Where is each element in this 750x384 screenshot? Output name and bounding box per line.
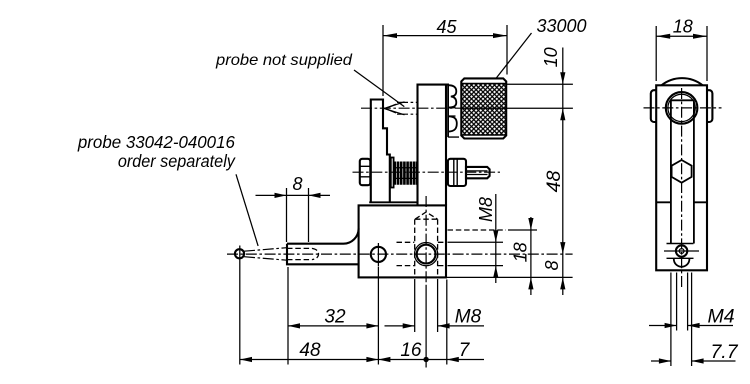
spring washer: [391, 158, 394, 188]
svg-text:order separately: order separately: [118, 151, 236, 171]
clamp circles: [666, 92, 698, 124]
label 33000: [497, 33, 532, 78]
tube: [671, 100, 694, 243]
center line main axis: [227, 253, 573, 255]
M4 hole: [676, 245, 687, 256]
dim M8 top: [495, 194, 497, 283]
probe ball: [235, 249, 244, 258]
probe tip phantom: [385, 104, 396, 113]
clamp piece bumps: [448, 85, 457, 131]
hidden probe shank hole in arm: [287, 248, 319, 259]
probe stem phantom: [397, 102, 418, 114]
hole 2 thread outer: [415, 243, 438, 266]
hex nut left: [360, 159, 371, 185]
hexagon: [672, 160, 692, 183]
svg-text:18: 18: [673, 17, 693, 37]
svg-text:8: 8: [542, 260, 562, 270]
svg-text:32: 32: [324, 307, 346, 328]
hole 1 (pivot hole): [371, 247, 386, 262]
extension lines bottom: [240, 262, 447, 365]
shoulder line under plates: [369, 201, 418, 203]
ball center cross: [239, 246, 241, 263]
hex nut right on stud: [448, 159, 466, 186]
dim 32 row: [288, 325, 378, 327]
center line probe top axis: [361, 107, 462, 109]
dim 18 side: [656, 35, 707, 37]
hidden drill cone: [415, 212, 438, 219]
dim 7.7: [651, 360, 736, 362]
leader probe 33042: [236, 174, 258, 246]
main column: [418, 85, 449, 206]
svg-text:8: 8: [292, 174, 302, 194]
column: [656, 85, 707, 270]
svg-text:probe 33042-040016: probe 33042-040016: [77, 132, 235, 152]
dim 45: [383, 35, 507, 37]
dim 48 / 16 / 7 row: [240, 359, 484, 361]
svg-text:M8: M8: [476, 197, 496, 222]
dim 18 right: [530, 217, 532, 295]
svg-text:probe not supplied: probe not supplied: [215, 52, 353, 69]
dim M4: [649, 325, 733, 327]
hole 1 cross: [377, 243, 379, 266]
hidden line 18 ref: [448, 229, 507, 231]
clamp plate (left stepped plate): [371, 100, 390, 203]
svg-text:7.7: 7.7: [710, 341, 738, 363]
M4 boss lines: [667, 244, 694, 259]
probe phantom cone to ball: [244, 248, 287, 261]
dim 10 / 48 right column: [562, 48, 564, 296]
shoulder: [656, 201, 707, 203]
top arc: [662, 78, 703, 85]
hole 2 tapped hole M8 inner: [417, 245, 436, 264]
spring coils: [395, 162, 417, 185]
knurled knob 33000: [461, 78, 506, 138]
center line hole 2 vertical: [425, 196, 427, 285]
dim M8 bottom: [385, 325, 485, 327]
svg-text:7: 7: [459, 340, 471, 361]
side center lines: [644, 107, 722, 109]
leader probe not supplied: [354, 70, 404, 107]
threaded stud: [466, 167, 490, 178]
dim 8 top: [256, 194, 331, 196]
V jaw on clamp plate: [384, 102, 404, 115]
center line screw axis: [353, 171, 501, 173]
svg-text:48: 48: [299, 340, 321, 361]
hidden vertical tapped hole sides: [415, 219, 438, 277]
svg-text:18: 18: [511, 242, 531, 262]
base block: [359, 205, 446, 277]
slot bottom: [674, 258, 690, 267]
svg-text:45: 45: [436, 17, 457, 37]
svg-text:10: 10: [541, 47, 561, 67]
svg-text:16: 16: [400, 340, 422, 361]
svg-text:33000: 33000: [537, 16, 587, 36]
right bump: [707, 90, 712, 122]
svg-text:M4: M4: [707, 306, 734, 328]
arm (probe holder arm): [287, 229, 359, 244]
hidden thread lines of cross hole: [397, 242, 446, 265]
svg-text:48: 48: [543, 171, 565, 193]
svg-text:M8: M8: [455, 307, 482, 328]
left bump: [651, 90, 656, 122]
